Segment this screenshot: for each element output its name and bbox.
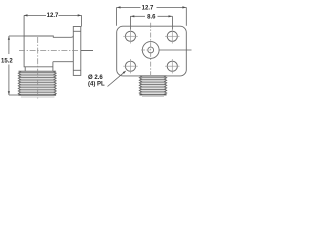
side view: thread bottom chamfer (21, 96, 55, 98)
side view: vertical centerline of jack axis (19, 37, 80, 99)
front view: thread bottom chamfer (142, 95, 164, 97)
side view: dimension 12.7 (depth) (24, 15, 82, 26)
front view: dimension 12.7 (flange width) (117, 7, 187, 25)
front view: 4 mounting holes with centerlines (125, 31, 135, 41)
front view: centerlines of interface (159, 49, 191, 51)
svg-text:12.7: 12.7 (47, 13, 59, 19)
side view: dimension 15.2 (height) (9, 36, 24, 95)
side view: horizontal centerline of flange axis (19, 50, 80, 52)
svg-text:(4) PL: (4) PL (88, 81, 105, 87)
side view: connector body outline (24, 15, 73, 71)
side view: threaded coupling (down) (19, 71, 56, 95)
front view: dimension 8.6 (hole spacing) (130, 16, 172, 29)
svg-text:Ø 2.6: Ø 2.6 (88, 75, 103, 81)
svg-text:15.2: 15.2 (1, 58, 13, 64)
svg-text:8.6: 8.6 (147, 15, 156, 21)
side view: flange (edge-on) (73, 27, 81, 76)
front view: flange plate with rounded corners (117, 26, 187, 76)
front view: threaded coupling seen below flange (140, 76, 166, 95)
svg-text:12.7: 12.7 (142, 5, 154, 11)
leader note: hole diameter 2.6, 4 places (108, 72, 125, 87)
front view: center interface circles (142, 42, 159, 59)
